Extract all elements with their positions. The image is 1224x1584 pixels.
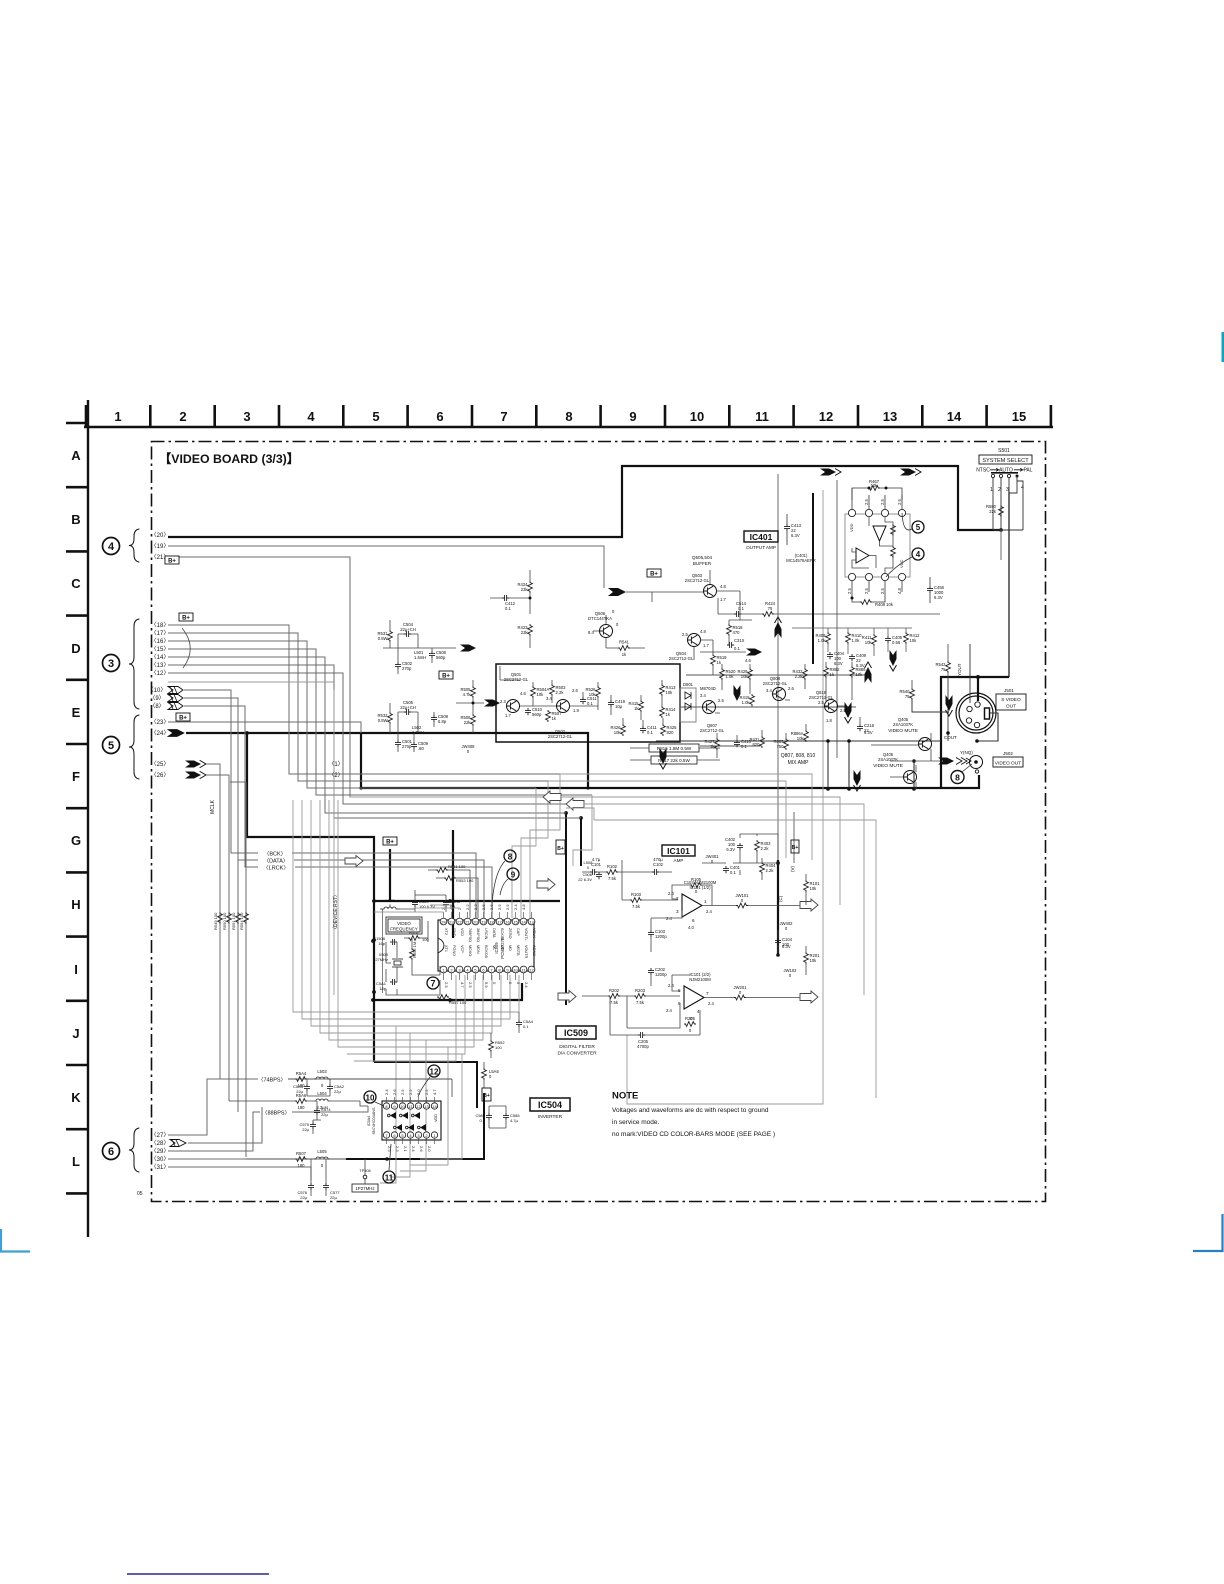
wire row y804 ext (584, 804, 864, 995)
capacitor C456 (927, 586, 933, 593)
top ruler ticks (86, 405, 1051, 427)
svg-text:6.3V: 6.3V (934, 595, 943, 600)
svg-text:4700p: 4700p (637, 1044, 649, 1049)
svg-text:2.3: 2.3 (395, 1146, 400, 1152)
power B+ small vertical (556, 840, 565, 854)
wire row y797 ext (561, 797, 840, 905)
resistor R424 (528, 581, 533, 593)
svg-text:【VIDEO BOARD (3/3)】: 【VIDEO BOARD (3/3)】 (159, 451, 299, 466)
svg-text:2: 2 (179, 409, 186, 424)
wire pin30 run (168, 1158, 346, 1160)
svg-text:2SC2712-GL: 2SC2712-GL (548, 734, 573, 739)
svg-text:2.2k: 2.2k (761, 846, 770, 851)
wire pin17 run (168, 633, 548, 781)
wire C514 R424 row (718, 598, 940, 614)
wire pin25 MCLK (206, 764, 220, 1079)
capacitor C577 (323, 1183, 329, 1190)
IC504 top pins (383, 1103, 389, 1109)
svg-text:7: 7 (706, 991, 709, 996)
connector J501 S VIDEO OUT (956, 693, 996, 733)
svg-text:〈18〉: 〈18〉 (151, 622, 170, 629)
svg-text:MD: MD (508, 945, 512, 951)
svg-text:〈23〉: 〈23〉 (151, 719, 170, 726)
wire row C feed (626, 570, 710, 602)
svg-text:13: 13 (424, 1104, 429, 1109)
resistor R411 (872, 634, 877, 646)
resistor R413 (660, 684, 665, 696)
op-amp U101a (682, 894, 702, 917)
svg-text:21: 21 (465, 920, 470, 925)
svg-text:4.7: 4.7 (460, 982, 465, 988)
resistor R817 boxed (651, 756, 697, 764)
capacitor C5A3 (443, 900, 449, 907)
svg-text:100: 100 (495, 1045, 502, 1050)
svg-text:9: 9 (511, 871, 516, 880)
wire pin23 branch (168, 722, 361, 733)
svg-text:C102: C102 (653, 862, 664, 867)
capacitor C101 (590, 869, 597, 875)
svg-text:in service mode.: in service mode. (612, 1119, 660, 1126)
svg-text:5.9: 5.9 (484, 982, 489, 988)
svg-text:B+: B+ (557, 846, 564, 852)
svg-text:BCKO5: BCKO5 (484, 945, 488, 958)
svg-text:4: 4 (1021, 485, 1024, 491)
svg-text:10k: 10k (741, 674, 749, 679)
inductor L5A6 (482, 1068, 487, 1080)
wire pin8 to serial bus (184, 706, 258, 867)
IC509 bottom pins (440, 966, 447, 973)
svg-text:DATA: DATA (492, 928, 496, 938)
svg-text:6: 6 (436, 409, 443, 424)
capacitor C585 (503, 1113, 509, 1120)
svg-text:MC: MC (500, 945, 504, 951)
svg-text:10k: 10k (856, 672, 864, 677)
svg-text:560p: 560p (436, 655, 446, 660)
resistor R410 (846, 632, 851, 644)
svg-text:22k: 22k (521, 587, 529, 592)
power B+ box 1 (165, 556, 179, 564)
circled 8 pointer (504, 850, 516, 862)
svg-text:22µ: 22µ (321, 1112, 328, 1117)
arrow pin19 (black) (608, 588, 626, 596)
svg-text:R202: R202 (609, 988, 620, 993)
svg-text:22µ: 22µ (330, 1195, 337, 1200)
power B+ box 3 (176, 713, 190, 721)
svg-text:R205: R205 (685, 1016, 696, 1021)
wire pin18 run (168, 625, 560, 774)
wire bold lower staircase rail (374, 1062, 477, 1108)
resistor R580 (999, 505, 1004, 517)
svg-text:MDN: MDN (476, 945, 480, 954)
connector group circled 4 (103, 538, 120, 555)
svg-text:B: B (71, 512, 80, 527)
svg-text:12: 12 (529, 968, 534, 973)
svg-text:〈16〉: 〈16〉 (151, 638, 170, 645)
op-amp U401 body (845, 514, 910, 577)
svg-text:18: 18 (489, 920, 494, 925)
svg-text:NOTE: NOTE (612, 1091, 638, 1102)
IC101 top wiring (702, 834, 778, 880)
svg-text:MCKO: MCKO (468, 945, 472, 956)
capacitor C409 (849, 654, 855, 661)
svg-text:0.5W: 0.5W (378, 718, 388, 723)
svg-text:6: 6 (692, 918, 695, 923)
LC filter block 2 wire (186, 718, 452, 733)
mix amp rails (680, 675, 868, 746)
resistor R429 (748, 668, 753, 680)
Q501 stage outline (496, 664, 680, 742)
resistor R103 (630, 898, 642, 903)
capacitor C401 (723, 866, 729, 873)
svg-text:4.8: 4.8 (720, 584, 726, 589)
resistor R503 (550, 684, 555, 696)
svg-text:11: 11 (755, 409, 769, 424)
svg-text:1.0k: 1.0k (818, 638, 827, 643)
svg-text:S501: S501 (998, 448, 1010, 454)
svg-text:5: 5 (372, 409, 379, 424)
capacitor C103 (648, 930, 654, 937)
svg-text:〈15〉: 〈15〉 (151, 646, 170, 653)
svg-text:VDD: VDD (849, 523, 854, 532)
svg-text:384FSO: 384FSO (476, 928, 480, 942)
svg-text:23: 23 (449, 920, 454, 925)
connector right tab wire (977, 713, 998, 741)
svg-text:22µ: 22µ (334, 1089, 341, 1094)
transistor Q503 (704, 585, 717, 598)
svg-text:2.0: 2.0 (427, 1146, 432, 1152)
inductor L503 (314, 1077, 330, 1079)
svg-text:2SC2712-GL: 2SC2712-GL (504, 677, 529, 682)
wire staircase extension 1 (560, 774, 812, 860)
schematic dash-dot border (152, 442, 1046, 1202)
svg-text:VDD: VDD (434, 1114, 438, 1122)
svg-text:15: 15 (513, 920, 518, 925)
resistor R552 (408, 936, 420, 941)
mix amp bottom rail (656, 741, 941, 789)
svg-text:2SC2712-GL: 2SC2712-GL (685, 578, 710, 583)
IC401 pins bottom (848, 573, 855, 580)
svg-text:YOUT: YOUT (957, 663, 962, 676)
resistor R554 (244, 912, 249, 924)
arrow down R542 (946, 695, 953, 716)
resistor R526 (596, 686, 601, 698)
capacitor C404 (827, 652, 833, 659)
svg-text:10: 10 (690, 409, 704, 424)
svg-text:2.2: 2.2 (408, 1089, 413, 1095)
svg-text:LRCIN: LRCIN (484, 928, 488, 940)
svg-text:10: 10 (400, 1104, 405, 1109)
svg-text:〈26〉: 〈26〉 (151, 772, 170, 779)
svg-text:DIGITAL FILTER: DIGITAL FILTER (559, 1044, 595, 1050)
svg-text:2.2k: 2.2k (795, 674, 804, 679)
svg-text:2.5: 2.5 (818, 700, 824, 705)
svg-text:3: 3 (676, 909, 679, 914)
svg-text:22: 22 (457, 920, 462, 925)
svg-text:L503: L503 (317, 1069, 327, 1074)
svg-text:6.3V: 6.3V (726, 847, 735, 852)
svg-text:10k: 10k (666, 690, 674, 695)
resistor R426 (621, 724, 626, 736)
transistor Q808 (773, 688, 786, 701)
svg-text:470: 470 (733, 630, 741, 635)
wire pin21 run (168, 557, 548, 797)
arrow down 1 (890, 650, 897, 671)
svg-text:〈17〉: 〈17〉 (151, 630, 170, 637)
switch wiring (993, 476, 1023, 530)
arrow into IC401 left (820, 469, 841, 476)
wire BCK run (292, 853, 476, 918)
capacitor C509 (411, 742, 417, 749)
resistor R202 (608, 994, 620, 999)
svg-text:7.5k: 7.5k (608, 876, 617, 881)
resistor R425 (661, 724, 666, 736)
svg-text:1P27MHz: 1P27MHz (355, 1186, 374, 1191)
svg-text:4: 4 (697, 1009, 700, 1014)
svg-text:I: I (74, 962, 78, 977)
svg-text:C101: C101 (591, 862, 602, 867)
IC509 label box (556, 1026, 596, 1039)
wire pin16 run (168, 641, 536, 788)
wire IC401 drop 1 (777, 474, 779, 860)
svg-text:2.4: 2.4 (384, 1089, 389, 1095)
svg-text:05: 05 (137, 1191, 143, 1197)
wire IC401 drop 3 (836, 480, 838, 758)
svg-text:INVERTER: INVERTER (538, 1114, 563, 1120)
op-amp B (right) (856, 548, 869, 563)
svg-text:0.1: 0.1 (523, 1024, 529, 1029)
top ruler line (84, 426, 1053, 428)
svg-text:BCKIN: BCKIN (500, 928, 504, 940)
svg-text:10: 10 (513, 968, 518, 973)
connecting verticals (715, 662, 860, 758)
svg-text:Y(NQ): Y(NQ) (960, 750, 973, 755)
svg-text:1.8: 1.8 (826, 718, 832, 723)
capacitor C104 (775, 938, 781, 945)
capacitor C502 (395, 662, 401, 669)
power B+ box 2 (179, 613, 193, 621)
transistor Q502 (557, 700, 570, 713)
svg-text:4.7µ: 4.7µ (592, 857, 601, 862)
svg-text:D501: D501 (683, 682, 694, 687)
svg-text:〈9〉: 〈9〉 (149, 695, 164, 702)
circled 5 pointer (912, 521, 924, 533)
capacitor C5A1 (390, 979, 397, 985)
left ruler line (87, 400, 89, 1237)
svg-text:2.4: 2.4 (513, 904, 518, 910)
arrow down 3 (660, 748, 667, 769)
svg-text:IC401: IC401 (750, 532, 773, 542)
svg-text:K: K (71, 1090, 81, 1105)
wire midrail y808 (566, 808, 594, 820)
svg-text:IC5A4: IC5A4 (367, 1116, 371, 1127)
svg-text:0.1: 0.1 (734, 646, 740, 651)
svg-text:Q505,504: Q505,504 (692, 555, 713, 560)
svg-text:6.3V: 6.3V (791, 533, 800, 538)
SEC:analog (165, 556, 762, 764)
svg-text:2.5: 2.5 (400, 1089, 405, 1095)
svg-text:14: 14 (947, 409, 962, 424)
resistor R540 (910, 688, 915, 700)
svg-text:6.8p: 6.8p (438, 719, 447, 724)
svg-text:1.0k: 1.0k (742, 700, 751, 705)
inverter gates (390, 1112, 396, 1119)
svg-text:750: 750 (777, 744, 785, 749)
resistor R541 (618, 646, 630, 651)
power B+ box 6 (791, 840, 799, 853)
svg-text:2.5: 2.5 (444, 982, 449, 988)
op-amp IC401 label box (744, 531, 778, 542)
wire pin12 run (168, 673, 570, 804)
svg-text:2.5: 2.5 (880, 499, 885, 505)
transistor Q506 (600, 625, 613, 638)
svg-text:2.5: 2.5 (847, 588, 852, 594)
svg-text:AGND: AGND (532, 945, 536, 956)
wire loops around IC504 (380, 1026, 396, 1183)
circled 10 (364, 1091, 376, 1103)
arrow out V (800, 899, 818, 911)
svg-text:2.5: 2.5 (497, 904, 502, 910)
capacitor C218 (857, 724, 863, 731)
IC504 chip body (382, 1101, 441, 1140)
svg-text:R408 10k: R408 10k (875, 602, 894, 607)
svg-text:768FSO: 768FSO (468, 928, 472, 942)
svg-text:ZERO: ZERO (508, 928, 512, 939)
IC509 top pins (440, 918, 447, 925)
bold drop x813 (812, 493, 814, 664)
wire IC509 top pin stubs (443, 912, 445, 918)
connector group circled 5 (103, 737, 120, 754)
resistor R531 (388, 630, 393, 642)
svg-text:J: J (72, 1026, 79, 1041)
svg-text:75: 75 (768, 606, 773, 611)
resistor R201 (804, 952, 809, 964)
wire row y820 (594, 820, 876, 1098)
svg-text:R541: R541 (619, 640, 630, 645)
wire IC101 loop (627, 490, 823, 1104)
svg-text:5: 5 (108, 740, 114, 752)
resistor R205 (684, 1022, 696, 1027)
svg-text:.80: .80 (418, 746, 424, 751)
wires cluster (822, 628, 912, 656)
svg-text:MSTB: MSTB (516, 945, 520, 956)
svg-text:VIDEO: VIDEO (397, 921, 411, 926)
svg-text:〈LRCK〉: 〈LRCK〉 (263, 865, 289, 872)
wire bold drops at staircase (565, 813, 567, 1005)
svg-text:180: 180 (298, 1105, 306, 1110)
wire pin26 run (206, 775, 229, 1101)
wire bold branch to IC509 left rail (247, 733, 374, 999)
resistor R504A (531, 686, 536, 698)
crystal X509 (394, 961, 401, 965)
svg-text:2.6: 2.6 (788, 686, 794, 691)
wire pin15 run (168, 649, 592, 795)
svg-text:J501: J501 (1004, 688, 1014, 693)
svg-text:2SC2712-GL: 2SC2712-GL (763, 681, 788, 686)
svg-text:16: 16 (505, 920, 510, 925)
svg-text:PGND: PGND (452, 945, 456, 956)
arrow up at x778 (775, 617, 782, 638)
svg-text:2.4: 2.4 (666, 1008, 672, 1013)
capacitor C569 (412, 900, 418, 907)
svg-text:7: 7 (500, 409, 507, 424)
wire staircase extension 2 (548, 781, 786, 858)
svg-text:2.4: 2.4 (524, 982, 529, 988)
svg-text:COUT: COUT (944, 735, 957, 740)
svg-text:H: H (71, 897, 80, 912)
svg-text:〈1〉: 〈1〉 (328, 761, 343, 768)
svg-text:6: 6 (108, 1146, 114, 1158)
resistor R551b (236, 912, 241, 924)
svg-text:G: G (71, 833, 81, 848)
svg-text:22µ+CH: 22µ+CH (400, 627, 416, 632)
svg-text:〈88BPS〉: 〈88BPS〉 (262, 1110, 290, 1117)
svg-text:〈DATA〉: 〈DATA〉 (264, 858, 289, 865)
svg-text:〈74BPS〉: 〈74BPS〉 (258, 1077, 286, 1084)
circled 7 pointer (427, 977, 439, 989)
svg-text:6.3V: 6.3V (856, 663, 865, 668)
svg-text:VDD: VDD (460, 928, 464, 936)
circled 9 pointer (507, 868, 519, 880)
capacitor C583 (486, 1113, 492, 1120)
svg-text:8: 8 (955, 773, 960, 783)
svg-text:1: 1 (114, 409, 121, 424)
svg-text:〈8〉: 〈8〉 (149, 703, 164, 710)
resistor R102 (606, 870, 618, 875)
svg-text:75: 75 (905, 694, 910, 699)
transistor Q807 (703, 701, 716, 714)
SEC:ic101 (582, 834, 820, 1049)
svg-text:A: A (71, 448, 81, 463)
svg-text:2.6: 2.6 (572, 688, 578, 693)
svg-text:2SC2712-GL: 2SC2712-GL (669, 656, 694, 661)
svg-text:820: 820 (753, 742, 761, 747)
svg-text:10k: 10k (910, 638, 918, 643)
svg-text:4: 4 (916, 550, 921, 559)
capacitor C205 (638, 1032, 645, 1038)
resistor R5A4 (295, 1077, 307, 1082)
connector group circled 6 (103, 1143, 120, 1160)
svg-text:10k: 10k (797, 736, 805, 741)
left ruler ticks (66, 423, 88, 1193)
resistor R414b (660, 706, 665, 718)
svg-text:2.6: 2.6 (392, 1089, 397, 1095)
svg-text:1.9: 1.9 (573, 708, 579, 713)
svg-text:no mark:VIDEO CD COLOR-BARS MO: no mark:VIDEO CD COLOR-BARS MODE (SEE PA… (612, 1131, 775, 1138)
power B+ IC504 (482, 1088, 491, 1101)
svg-text:4.8: 4.8 (897, 588, 902, 594)
capacitor C501 (395, 740, 401, 747)
resistor R816 boxed (649, 744, 699, 752)
svg-text:2SA1037K: 2SA1037K (893, 722, 913, 727)
wire pin28 run (188, 1107, 262, 1143)
resistor R518 (727, 624, 732, 636)
wire pin29 to 88BPS row (168, 1112, 260, 1151)
capacitor C510 (525, 708, 531, 715)
transistor Q406 video mute (904, 771, 917, 784)
circled 11 (383, 1171, 395, 1183)
svg-text:10k: 10k (614, 730, 622, 735)
resistor R551 (436, 868, 448, 873)
connector group circled 3 (103, 655, 120, 672)
resistor R506 (471, 714, 476, 726)
svg-text:7: 7 (430, 979, 435, 989)
svg-text:470µ: 470µ (653, 857, 663, 862)
svg-text:R555 1M: R555 1M (412, 942, 417, 958)
svg-text:9: 9 (629, 409, 636, 424)
svg-text:2.5: 2.5 (880, 588, 885, 594)
LC filter block 1 wire (383, 647, 456, 649)
capacitor C506b (596, 872, 602, 879)
